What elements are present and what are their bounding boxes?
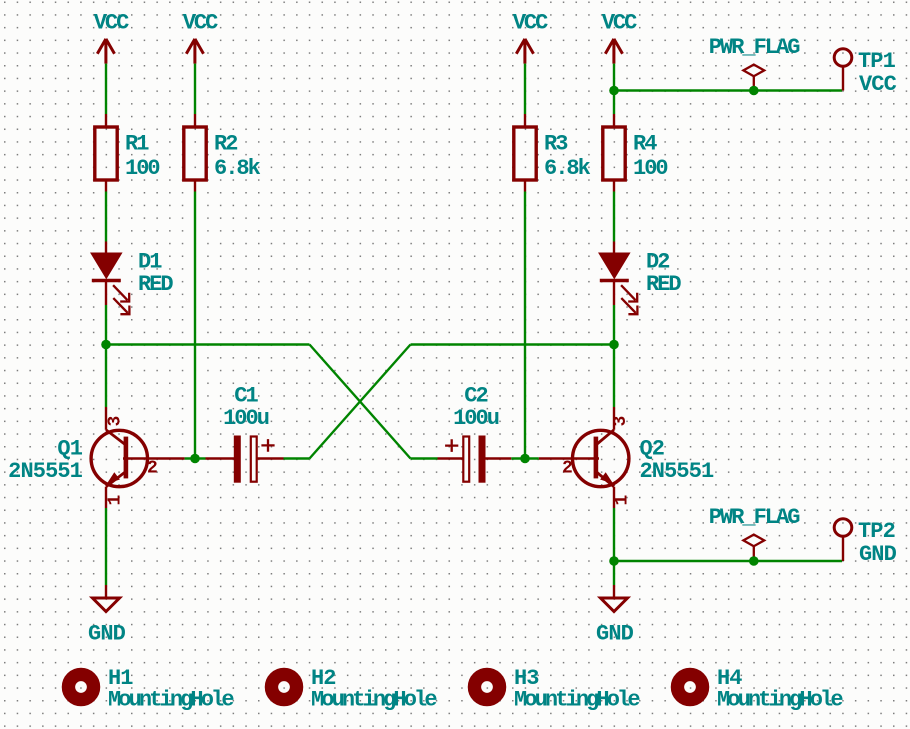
wire GND rail to TP2 [614,560,842,562]
mounting hole H4 [677,674,702,699]
mounting hole H2 [271,674,296,699]
svg-text:VCC: VCC [513,11,548,36]
wire R3 to Q2 base node [524,192,526,459]
svg-text:6.8k: 6.8k [544,156,591,181]
wire VCC to R1 [105,64,107,114]
wire R2 to Q1 base node [194,192,196,459]
svg-text:PWR_FLAG: PWR_FLAG [709,505,800,530]
svg-text:2: 2 [147,459,158,479]
test point TP2 [834,519,852,537]
pin TP1 [842,66,844,90]
svg-text:C1: C1 [234,384,258,409]
svg-text:VCC: VCC [602,11,637,36]
power symbol VCC (above R4) [605,39,622,64]
wire VCC to R2 [194,64,196,114]
svg-text:2N5551: 2N5551 [640,459,715,484]
pin R3 bottom [524,180,526,192]
power flag PWR_FLAG (GND) [743,535,764,561]
junction Q2 emitter / TP2 node [609,556,619,566]
mounting hole H1 [68,674,93,699]
resistor R3 [514,127,536,180]
pin GND (right) [613,585,615,598]
svg-text:VCC: VCC [859,72,897,97]
resistor R2 [184,127,206,180]
svg-text:R3: R3 [544,132,568,157]
pin R2 bottom [194,180,196,192]
junction Q1 collector node [101,340,111,350]
pin D2 anode [613,242,615,255]
transistor Q2 [573,430,629,487]
pin R4 bottom [613,180,615,192]
svg-text:TP1: TP1 [858,49,896,74]
svg-text:2N5551: 2N5551 [8,459,83,484]
pin Q2 collector [613,407,615,430]
pin Q1 emitter [105,487,107,508]
svg-text:VCC: VCC [94,11,129,36]
wire collector node B horizontal [411,343,615,345]
wire diagonal A (left node to right base row) [310,345,411,459]
svg-text:2: 2 [562,459,573,479]
pin R3 top [524,114,526,127]
junction VCC node at R4 [609,86,619,96]
wire D1 to collector node [105,305,107,407]
ground symbol GND (right) [601,598,628,612]
svg-text:100: 100 [633,156,667,181]
svg-text:PWR_FLAG: PWR_FLAG [709,35,800,60]
svg-text:GND: GND [859,542,897,567]
pin D1 anode [105,242,107,255]
svg-text:Q2: Q2 [640,436,665,461]
svg-text:1: 1 [613,495,633,506]
wire VCC rail to TP1 [614,89,842,91]
svg-text:R1: R1 [125,132,149,157]
mounting hole H3 [474,674,499,699]
svg-text:MountingHole: MountingHole [717,688,843,713]
svg-text:GND: GND [88,622,126,647]
pin Q2 emitter [613,487,615,508]
pin R2 top [194,114,196,127]
pin R1 top [105,114,107,127]
svg-text:RED: RED [138,272,173,297]
wire D2 to collector node [613,305,615,407]
junction PWR_FLAG VCC [749,86,759,96]
wire R4 to D2 [613,192,615,242]
svg-text:D2: D2 [646,250,669,275]
wire Q2 emitter to GND [613,508,615,585]
svg-text:MountingHole: MountingHole [311,688,437,713]
ground symbol GND (left) [93,598,120,612]
wire VCC to R3 [524,64,526,114]
test point TP1 [834,49,852,67]
wire diagonal B (right node to left base row) [310,345,411,459]
wire Q1 emitter to GND [105,508,107,585]
junction Q1 base node [190,454,200,464]
power flag PWR_FLAG (VCC) [743,65,764,91]
wire collector node A horizontal [106,343,310,345]
svg-text:Q1: Q1 [57,436,82,461]
LED D1 [92,254,121,281]
capacitor C1 [206,436,284,483]
junction Q2 base node [520,454,530,464]
svg-text:C2: C2 [464,384,487,409]
pin GND (left) [105,585,107,598]
pin D1 cathode [105,281,107,306]
svg-text:MountingHole: MountingHole [514,688,640,713]
svg-text:100: 100 [125,156,159,181]
svg-text:3: 3 [106,416,126,427]
wire Q1 base to C1 [185,457,206,459]
pin Q1 base [123,457,185,459]
svg-text:VCC: VCC [183,11,218,36]
power symbol VCC (above R1) [97,39,114,64]
svg-text:D1: D1 [138,250,162,275]
wire VCC to R4 (through TP1 node) [613,64,615,114]
svg-text:100u: 100u [453,406,499,431]
pin Q1 collector [105,407,107,430]
transistor Q1 [91,430,147,487]
junction Q2 collector node [609,340,619,350]
power symbol VCC (above R3) [516,39,533,64]
wire R1 to D1 [105,192,107,242]
power symbol VCC (above R2) [186,39,203,64]
pin TP2 [842,536,844,561]
wire C1 to crossing [284,457,310,459]
svg-text:R4: R4 [633,132,657,157]
resistor R4 [603,127,625,180]
pin D2 cathode [613,281,615,306]
resistor R1 [95,127,117,180]
pin R1 bottom [105,180,107,192]
LED D2 [600,254,629,281]
capacitor C2 [411,436,512,483]
svg-text:RED: RED [646,272,681,297]
svg-text:MountingHole: MountingHole [108,688,234,713]
pin R4 top [613,114,615,127]
wire C2 to Q2 base [511,457,539,459]
svg-text:6.8k: 6.8k [214,156,261,181]
svg-text:1: 1 [106,495,126,506]
pin Q2 base [539,457,599,459]
svg-text:100u: 100u [223,406,269,431]
LED D1 light arrows [113,285,129,314]
svg-text:R2: R2 [214,132,237,157]
svg-text:TP2: TP2 [858,519,895,544]
svg-text:GND: GND [596,622,634,647]
LED D2 light arrows [621,285,637,314]
junction PWR_FLAG GND [749,556,759,566]
